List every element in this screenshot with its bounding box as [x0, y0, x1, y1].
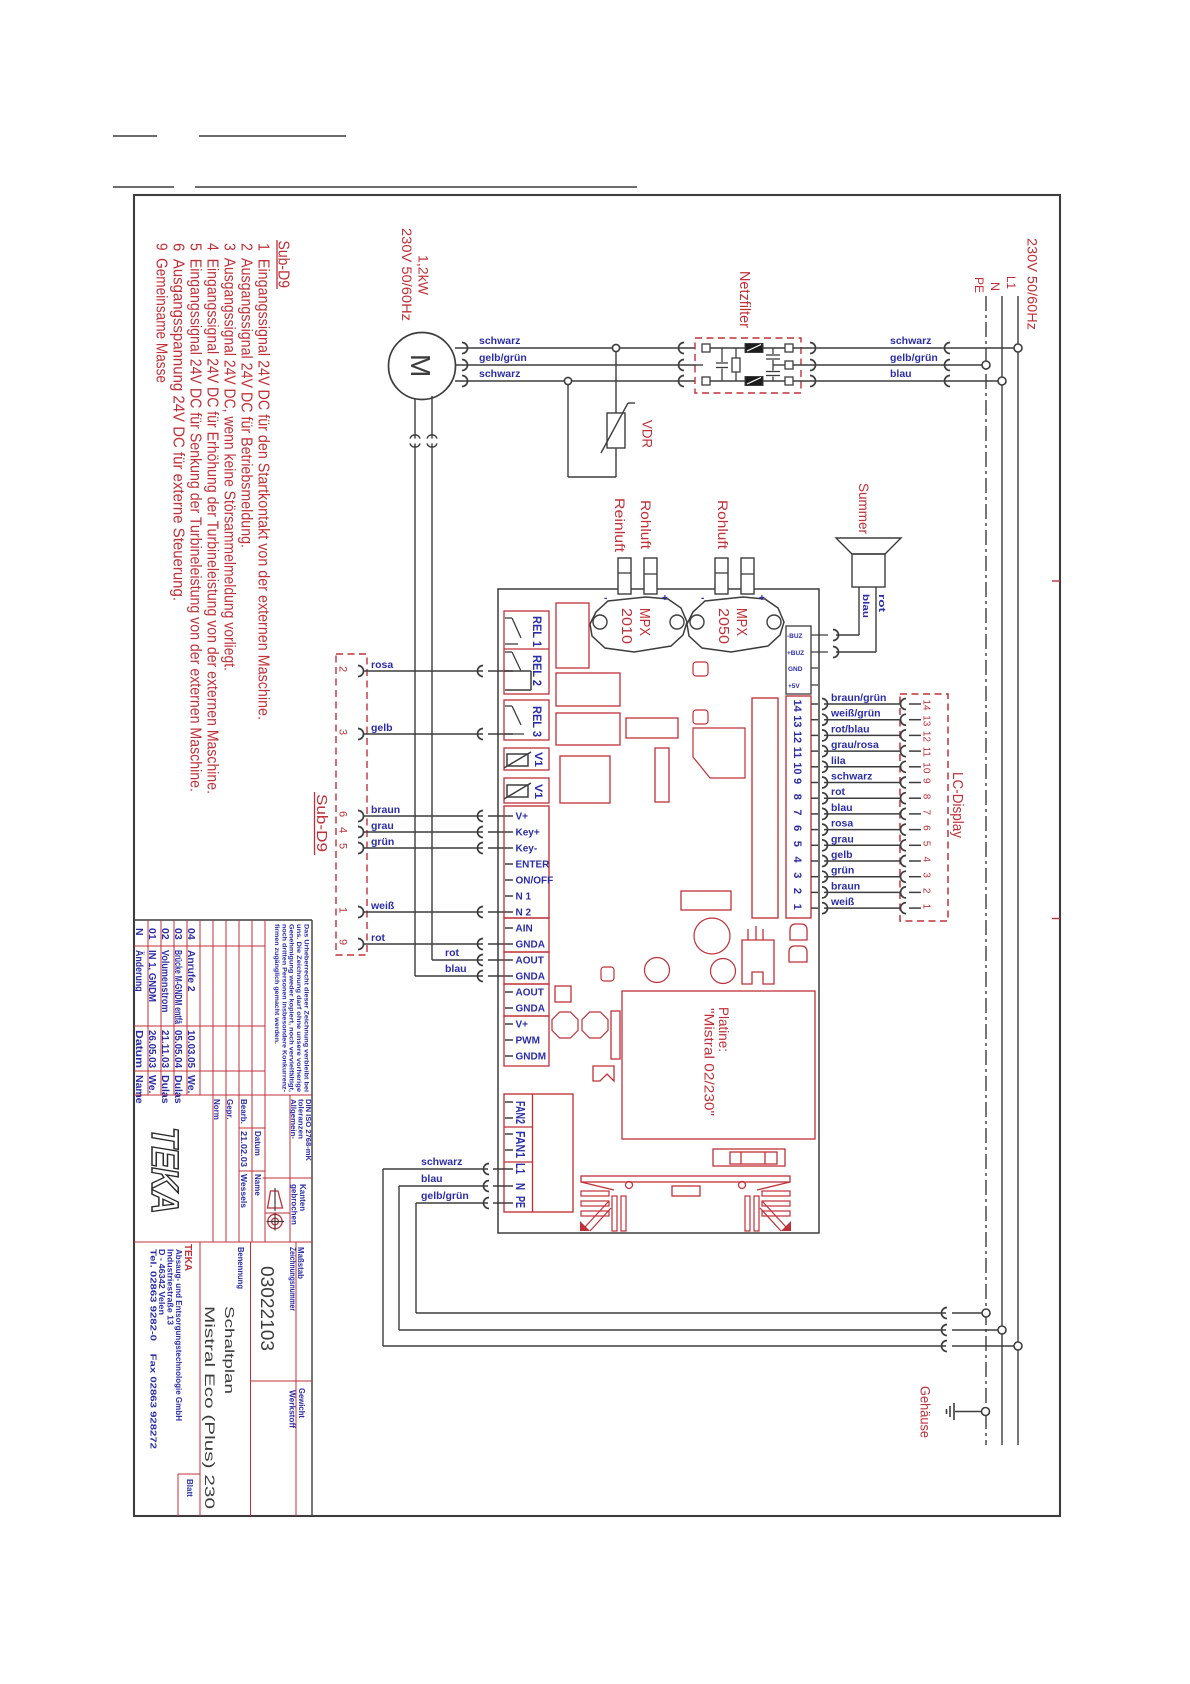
svg-text:Name: Name	[253, 1174, 262, 1196]
svg-text:V+: V+	[516, 812, 529, 823]
svg-text:MPX: MPX	[636, 608, 652, 636]
svg-text:REL 2: REL 2	[530, 655, 544, 686]
svg-text:Schaltplan: Schaltplan	[222, 1306, 236, 1394]
svg-text:13: 13	[921, 715, 932, 727]
svg-text:rosa: rosa	[371, 659, 393, 671]
svg-text:schwarz: schwarz	[421, 1156, 462, 1168]
svg-text:Blatt: Blatt	[185, 1479, 194, 1497]
svg-text:5: 5	[337, 843, 349, 849]
svg-text:Sub-D9: Sub-D9	[275, 241, 292, 289]
svg-text:We.: We.	[185, 1075, 197, 1094]
svg-text:02: 02	[159, 928, 171, 940]
svg-text:Summer: Summer	[856, 483, 872, 534]
svg-text:1: 1	[337, 907, 349, 913]
svg-text:rot: rot	[371, 932, 386, 944]
svg-text:grün: grün	[371, 836, 394, 848]
svg-text:3: 3	[791, 872, 803, 878]
svg-text:6: 6	[921, 825, 932, 831]
svg-text:5: 5	[921, 841, 932, 847]
svg-text:230V 50/60Hz: 230V 50/60Hz	[1025, 238, 1041, 330]
svg-text:2: 2	[337, 666, 349, 672]
svg-text:V1: V1	[532, 752, 544, 767]
svg-text:N: N	[133, 928, 145, 936]
svg-text:V1: V1	[532, 784, 544, 799]
svg-text:Key-: Key-	[516, 844, 538, 855]
svg-text:Anrufe 2: Anrufe 2	[185, 950, 197, 992]
svg-text:Netzfilter: Netzfilter	[736, 271, 752, 328]
svg-text:3: 3	[337, 729, 349, 735]
svg-text:Bearb.: Bearb.	[239, 1099, 248, 1124]
svg-text:REL 3: REL 3	[530, 706, 544, 737]
svg-text:4: 4	[921, 857, 932, 863]
svg-text:-: -	[604, 593, 607, 604]
svg-text:firmen zugänglich gemacht werd: firmen zugänglich gemacht werden.	[273, 924, 280, 1044]
svg-text:21.02.03: 21.02.03	[239, 1131, 248, 1168]
svg-text:7: 7	[791, 809, 803, 815]
svg-text:uns. Die Zeichnung darf ohne u: uns. Die Zeichnung darf ohne unsere vorh…	[295, 924, 302, 1093]
svg-text:+BUZ: +BUZ	[787, 650, 804, 657]
svg-text:03022103: 03022103	[257, 1266, 277, 1351]
svg-text:10: 10	[921, 762, 932, 774]
svg-text:schwarz: schwarz	[479, 335, 520, 347]
svg-text:Änderung: Änderung	[133, 950, 146, 992]
svg-text:Benennung: Benennung	[236, 1247, 245, 1289]
svg-text:7: 7	[921, 809, 932, 815]
svg-text:11: 11	[791, 747, 803, 759]
svg-text:blau: blau	[445, 963, 467, 975]
svg-text:Sub-D9: Sub-D9	[313, 794, 330, 852]
svg-text:AOUT: AOUT	[516, 956, 544, 967]
svg-text:9: 9	[791, 778, 803, 784]
svg-text:PWM: PWM	[516, 1036, 540, 1047]
svg-text:REL 1: REL 1	[530, 616, 544, 647]
svg-text:Brücke M-GNDM entfä: Brücke M-GNDM entfä	[172, 950, 184, 1024]
svg-text:GNDM: GNDM	[516, 1052, 547, 1063]
svg-text:L1: L1	[1004, 276, 1016, 289]
svg-text:PE: PE	[513, 1196, 528, 1208]
svg-text:8: 8	[921, 794, 932, 800]
svg-text:grau: grau	[371, 820, 394, 832]
svg-text:4: 4	[791, 857, 803, 864]
svg-text:gelb/grün: gelb/grün	[479, 352, 527, 364]
svg-text:blau: blau	[421, 1173, 443, 1185]
svg-text:2: 2	[791, 888, 803, 894]
svg-text:rot: rot	[831, 786, 846, 798]
svg-text:blau: blau	[890, 368, 912, 380]
svg-text:rot/blau: rot/blau	[831, 723, 870, 735]
svg-text:lila: lila	[831, 755, 846, 767]
svg-text:grau: grau	[831, 833, 854, 845]
svg-text:Datum: Datum	[133, 1030, 145, 1068]
svg-text:AOUT: AOUT	[516, 988, 544, 999]
svg-text:10.03.05: 10.03.05	[185, 1030, 197, 1068]
svg-text:schwarz: schwarz	[831, 771, 872, 783]
svg-text:FAN1: FAN1	[513, 1131, 528, 1158]
svg-text:4 Eingangssignal 24V DC für E: 4 Eingangssignal 24V DC für Erhöhung der…	[204, 243, 221, 794]
svg-text:Das Urheberrecht dieser Zeichn: Das Urheberrecht dieser Zeichnung verble…	[303, 924, 310, 1092]
svg-text:GNDA: GNDA	[516, 940, 545, 951]
svg-text:weiß: weiß	[830, 896, 855, 908]
svg-text:schwarz: schwarz	[479, 368, 520, 380]
svg-text:Zeichnungsnummer: Zeichnungsnummer	[288, 1247, 297, 1311]
svg-text:6: 6	[791, 825, 803, 831]
svg-text:9 Gemeinsame Masse: 9 Gemeinsame Masse	[153, 243, 170, 383]
svg-text:weiß: weiß	[370, 900, 395, 912]
svg-text:03: 03	[172, 928, 184, 940]
svg-text:ON/OFF: ON/OFF	[516, 876, 554, 887]
svg-text:5 Eingangssignal 24V DC für S: 5 Eingangssignal 24V DC für Senkung der …	[187, 243, 204, 792]
svg-text:Rohluft: Rohluft	[715, 500, 731, 549]
svg-text:230V 50/60Hz: 230V 50/60Hz	[399, 228, 414, 321]
svg-text:Dulas: Dulas	[172, 1075, 184, 1104]
svg-text:2 Ausgangssignal 24V DC für B: 2 Ausgangssignal 24V DC für Betriebsmeld…	[238, 243, 255, 548]
svg-text:braun: braun	[371, 804, 400, 816]
svg-text:+: +	[759, 593, 765, 604]
svg-text:PE: PE	[972, 277, 984, 293]
svg-text:04: 04	[185, 928, 197, 940]
svg-text:gebrochen: gebrochen	[290, 1184, 299, 1225]
svg-text:Maßstab: Maßstab	[296, 1247, 305, 1279]
svg-text:gelb: gelb	[371, 722, 393, 734]
svg-text:10: 10	[791, 762, 803, 774]
svg-text:-BUZ: -BUZ	[787, 633, 803, 640]
svg-text:12: 12	[791, 731, 803, 743]
svg-text:L1: L1	[513, 1163, 528, 1174]
svg-text:Volumenstrom: Volumenstrom	[159, 950, 171, 1012]
svg-text:8: 8	[791, 794, 803, 800]
svg-text:blau: blau	[861, 594, 871, 618]
svg-text:Platine:: Platine:	[716, 1007, 731, 1052]
svg-text:5: 5	[791, 841, 803, 847]
svg-text:gelb/grün: gelb/grün	[890, 352, 938, 364]
svg-text:9: 9	[921, 778, 932, 784]
svg-text:2: 2	[921, 888, 932, 894]
svg-text:braun: braun	[831, 880, 860, 892]
svg-text:blau: blau	[831, 802, 853, 814]
svg-text:gelb: gelb	[831, 849, 853, 861]
svg-text:We.: We.	[146, 1075, 158, 1094]
svg-text:3: 3	[921, 872, 932, 878]
svg-text:braun/grün: braun/grün	[831, 692, 886, 704]
svg-text:6 Ausgangsspannung 24V DC für: 6 Ausgangsspannung 24V DC für externe St…	[170, 243, 187, 601]
svg-text:1: 1	[921, 904, 932, 910]
svg-text:Tel. 02863 9282-0 Fax 02863: Tel. 02863 9282-0 Fax 02863 928272	[149, 1249, 158, 1450]
svg-text:gelb/grün: gelb/grün	[421, 1190, 469, 1202]
svg-text:05.05.04: 05.05.04	[172, 1030, 184, 1068]
svg-text:21.11.03: 21.11.03	[159, 1030, 171, 1068]
svg-text:9: 9	[337, 939, 349, 945]
svg-text:GND: GND	[788, 666, 803, 673]
svg-text:14: 14	[921, 700, 932, 712]
svg-text:1 Eingangssignal 24V DC für d: 1 Eingangssignal 24V DC für den Startkon…	[255, 243, 272, 720]
svg-text:AIN: AIN	[516, 924, 533, 935]
svg-text:Gepr.: Gepr.	[225, 1099, 234, 1119]
svg-text:01: 01	[146, 928, 158, 940]
svg-text:N: N	[513, 1183, 528, 1190]
svg-text:schwarz: schwarz	[890, 335, 931, 347]
svg-text:grün: grün	[831, 865, 854, 877]
svg-text:grau/rosa: grau/rosa	[831, 739, 879, 751]
svg-text:V+: V+	[516, 1020, 529, 1031]
svg-text:MPX: MPX	[733, 608, 749, 636]
svg-text:N 2: N 2	[516, 908, 532, 919]
svg-text:1: 1	[791, 904, 803, 910]
svg-text:Dulas: Dulas	[159, 1075, 171, 1104]
svg-text:Norm: Norm	[212, 1099, 221, 1120]
svg-text:+: +	[662, 593, 668, 604]
svg-text:Rohluft: Rohluft	[638, 500, 654, 549]
svg-text:VDR: VDR	[640, 420, 656, 448]
svg-text:weiß/grün: weiß/grün	[830, 708, 881, 720]
svg-text:11: 11	[921, 747, 932, 758]
svg-text:ENTER: ENTER	[516, 860, 551, 871]
svg-text:"Mistral 02/230": "Mistral 02/230"	[702, 1008, 717, 1116]
svg-text:2010: 2010	[618, 608, 634, 644]
svg-text:Reinluft: Reinluft	[612, 498, 628, 552]
svg-text:-: -	[701, 593, 704, 604]
svg-text:3 Ausgangssignal 24V DC, wenn: 3 Ausgangssignal 24V DC, wenn keine Stör…	[221, 243, 238, 671]
svg-text:GNDA: GNDA	[516, 1004, 545, 1015]
svg-text:Genehmigung weder kopiert, noc: Genehmigung weder kopiert, noch vervielf…	[288, 924, 295, 1092]
svg-text:noch dritten Personen insbeson: noch dritten Personen insbesondere Konku…	[280, 924, 287, 1092]
svg-text:rot: rot	[445, 947, 460, 959]
svg-text:+5V: +5V	[788, 683, 800, 690]
svg-text:Werkstoff: Werkstoff	[288, 1390, 297, 1428]
svg-text:N 1: N 1	[516, 892, 532, 903]
svg-text:1,2kW: 1,2kW	[416, 255, 431, 295]
svg-text:LC-Display: LC-Display	[949, 772, 966, 838]
svg-text:Name: Name	[133, 1075, 145, 1104]
svg-text:Wessels: Wessels	[239, 1174, 248, 1209]
svg-text:Datum: Datum	[253, 1131, 262, 1156]
svg-text:Mistral Eco (Plus) 230: Mistral Eco (Plus) 230	[202, 1306, 218, 1509]
svg-text:DIN ISO 2768-mK: DIN ISO 2768-mK	[304, 1099, 313, 1162]
svg-text:M: M	[405, 354, 436, 377]
svg-text:TEKA: TEKA	[143, 1127, 185, 1213]
svg-text:12: 12	[921, 731, 932, 743]
svg-text:rot: rot	[877, 594, 887, 612]
svg-text:Gewicht: Gewicht	[297, 1388, 306, 1418]
svg-text:Key+: Key+	[516, 828, 540, 839]
svg-text:4: 4	[337, 827, 349, 833]
svg-text:14: 14	[791, 700, 803, 713]
svg-text:IN 1, GNDM: IN 1, GNDM	[146, 950, 158, 1002]
svg-text:Gehäuse: Gehäuse	[918, 1386, 934, 1438]
svg-text:6: 6	[337, 811, 349, 817]
svg-text:2050: 2050	[715, 608, 731, 644]
svg-text:N: N	[988, 282, 1000, 291]
svg-text:rosa: rosa	[831, 818, 853, 830]
svg-text:GNDA: GNDA	[516, 972, 545, 983]
svg-text:FAN2: FAN2	[513, 1101, 528, 1124]
svg-text:13: 13	[791, 715, 803, 727]
svg-text:26.05.03: 26.05.03	[146, 1030, 158, 1068]
